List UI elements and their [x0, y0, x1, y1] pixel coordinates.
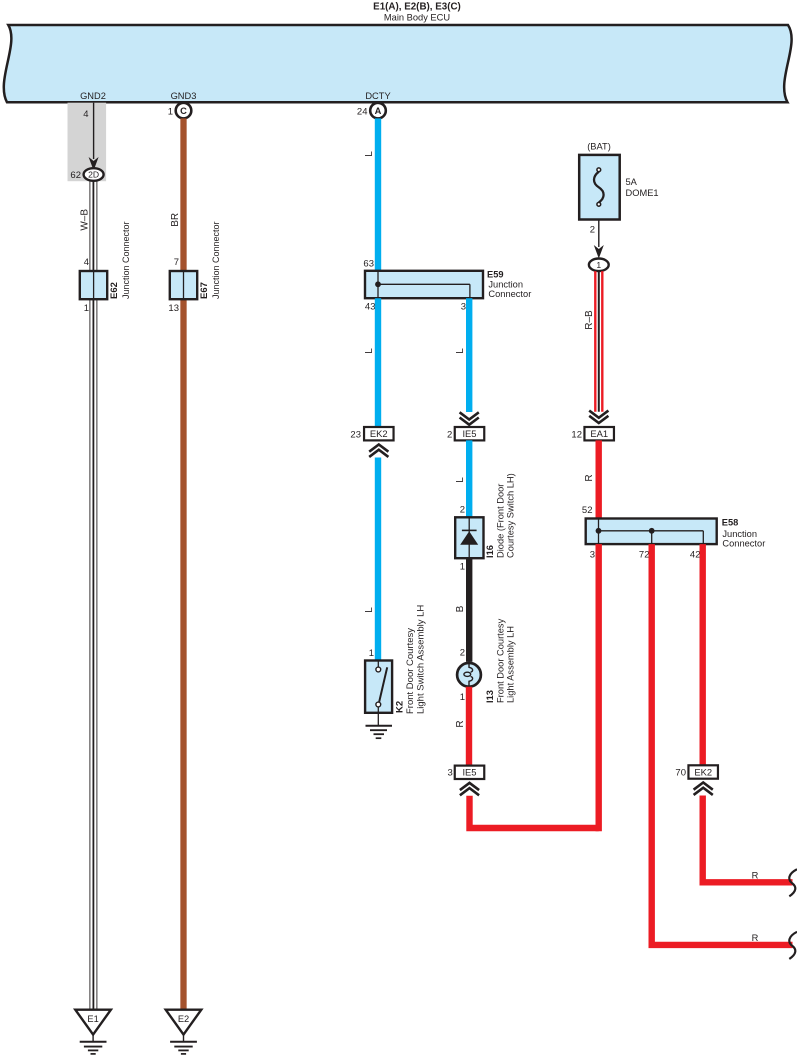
- svg-text:2: 2: [460, 648, 465, 659]
- svg-text:I13: I13: [485, 690, 495, 703]
- svg-text:7: 7: [174, 257, 179, 268]
- svg-text:3: 3: [461, 302, 466, 313]
- svg-text:R: R: [752, 871, 759, 881]
- svg-text:R: R: [752, 933, 759, 943]
- svg-text:E1(A), E2(B), E3(C): E1(A), E2(B), E3(C): [373, 2, 461, 13]
- svg-text:5A: 5A: [626, 177, 638, 187]
- svg-text:E59: E59: [487, 270, 504, 280]
- svg-text:L: L: [455, 348, 466, 354]
- svg-text:Light Assembly LH: Light Assembly LH: [506, 626, 516, 703]
- svg-text:E62: E62: [109, 282, 120, 299]
- svg-text:Junction: Junction: [722, 529, 757, 539]
- svg-text:EK2: EK2: [694, 766, 712, 777]
- svg-text:IE5: IE5: [462, 767, 476, 778]
- svg-text:IE5: IE5: [462, 428, 476, 439]
- svg-text:23: 23: [350, 430, 361, 441]
- svg-text:GND3: GND3: [171, 91, 197, 101]
- svg-text:L: L: [364, 607, 375, 613]
- svg-text:Connector: Connector: [488, 289, 531, 299]
- svg-text:EK2: EK2: [370, 428, 388, 439]
- svg-text:EA1: EA1: [590, 428, 608, 439]
- svg-text:Front Door Courtesy: Front Door Courtesy: [405, 628, 416, 714]
- svg-text:2: 2: [590, 225, 595, 236]
- svg-text:Connector: Connector: [722, 539, 765, 549]
- svg-text:L: L: [364, 348, 375, 354]
- svg-text:62: 62: [70, 170, 81, 181]
- svg-text:1: 1: [460, 562, 465, 573]
- svg-text:3: 3: [590, 550, 595, 561]
- svg-text:1: 1: [369, 648, 374, 659]
- svg-text:W–B: W–B: [79, 209, 90, 231]
- svg-text:B: B: [455, 605, 466, 612]
- svg-text:2: 2: [447, 430, 452, 441]
- svg-text:R: R: [455, 720, 466, 727]
- svg-text:43: 43: [365, 302, 376, 313]
- svg-text:DOME1: DOME1: [626, 188, 659, 198]
- svg-text:DCTY: DCTY: [365, 91, 390, 101]
- svg-text:Main Body ECU: Main Body ECU: [384, 13, 450, 23]
- svg-text:63: 63: [363, 259, 374, 270]
- svg-text:E67: E67: [199, 282, 210, 299]
- svg-text:R–B: R–B: [584, 310, 595, 330]
- svg-text:24: 24: [357, 107, 368, 118]
- svg-text:4: 4: [84, 257, 89, 268]
- svg-text:L: L: [455, 477, 466, 483]
- svg-text:Courtesy Switch LH): Courtesy Switch LH): [506, 473, 516, 558]
- svg-text:K2: K2: [395, 701, 406, 713]
- svg-text:42: 42: [690, 550, 701, 561]
- svg-text:Junction: Junction: [488, 280, 523, 290]
- svg-text:3: 3: [448, 768, 453, 779]
- svg-text:1: 1: [596, 260, 601, 270]
- svg-text:A: A: [375, 106, 382, 116]
- svg-text:1: 1: [168, 107, 173, 118]
- svg-text:70: 70: [675, 768, 686, 779]
- svg-text:1: 1: [460, 692, 465, 703]
- svg-text:R: R: [584, 474, 595, 481]
- svg-text:Junction Connector: Junction Connector: [121, 221, 131, 299]
- svg-text:BR: BR: [170, 213, 181, 227]
- svg-text:E1: E1: [87, 1014, 98, 1024]
- svg-text:72: 72: [639, 550, 650, 561]
- svg-text:2D: 2D: [88, 170, 99, 180]
- svg-text:E58: E58: [722, 518, 739, 528]
- svg-text:Diode (Front Door: Diode (Front Door: [496, 484, 506, 558]
- svg-text:4: 4: [83, 109, 88, 120]
- svg-text:13: 13: [168, 303, 179, 314]
- svg-text:L: L: [364, 151, 375, 157]
- svg-text:2: 2: [460, 505, 465, 516]
- svg-text:GND2: GND2: [80, 91, 106, 101]
- svg-text:E2: E2: [178, 1014, 189, 1024]
- svg-text:Junction Connector: Junction Connector: [211, 221, 221, 299]
- svg-text:I16: I16: [485, 545, 495, 558]
- svg-text:C: C: [180, 106, 187, 116]
- svg-text:52: 52: [582, 505, 593, 516]
- svg-text:1: 1: [84, 303, 89, 314]
- svg-text:(BAT): (BAT): [587, 141, 611, 151]
- svg-text:12: 12: [571, 430, 582, 441]
- svg-text:Light Switch Assembly LH: Light Switch Assembly LH: [416, 605, 427, 714]
- svg-text:Front Door Courtesy: Front Door Courtesy: [496, 618, 506, 703]
